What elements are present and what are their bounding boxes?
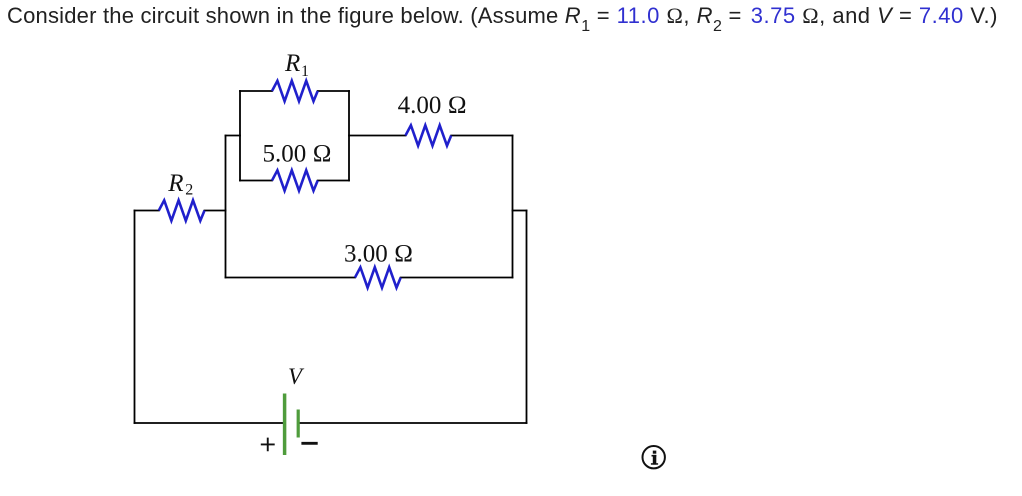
wire: bottom wire right of battery	[300, 422, 527, 424]
wire: middle loop right vertical	[512, 136, 514, 278]
wire: left stub from node into box	[226, 135, 241, 137]
info icon	[643, 446, 665, 468]
svg-text:R: R	[167, 170, 183, 197]
wire: box bottom edge segments around 5.00 ohm resistor	[240, 180, 349, 182]
resistor R2	[159, 200, 205, 220]
resistor 5.00 ohm	[272, 170, 318, 190]
resistor R1	[272, 81, 318, 101]
resistor 3.00 ohm	[355, 267, 401, 287]
title	[7, 1, 998, 34]
svg-text:3.00 Ω: 3.00 Ω	[344, 241, 413, 268]
wire: bottom wire left of battery	[135, 422, 285, 424]
svg-text:R: R	[284, 50, 300, 77]
battery minus sign	[301, 442, 317, 445]
wire: parallel box left edge	[239, 91, 241, 181]
resistor 4.00 ohm	[406, 125, 452, 145]
svg-text:1: 1	[301, 63, 309, 80]
battery plus sign	[261, 438, 275, 452]
wire: outer right vertical	[526, 211, 528, 424]
svg-text:5.00 Ω: 5.00 Ω	[263, 141, 332, 168]
wire: middle loop left vertical	[225, 136, 227, 278]
svg-text:V: V	[288, 364, 305, 389]
wire: outer left vertical	[134, 211, 136, 424]
wire: horizontal run from box to right loop corner with gap for 4.00 ohm	[349, 135, 513, 137]
svg-text:2: 2	[185, 182, 193, 199]
wire: middle loop bottom segments around 3.00 ohm	[226, 277, 513, 279]
wire: parallel box right edge	[348, 91, 350, 181]
battery V positive plate	[283, 394, 287, 456]
wire: box top edge segments around R1	[240, 90, 349, 92]
battery V negative plate	[297, 410, 300, 438]
wire: right stub to outer loop	[513, 210, 527, 212]
svg-text:4.00 Ω: 4.00 Ω	[398, 92, 467, 119]
wire: R2 branch horizontal segments	[135, 210, 226, 212]
